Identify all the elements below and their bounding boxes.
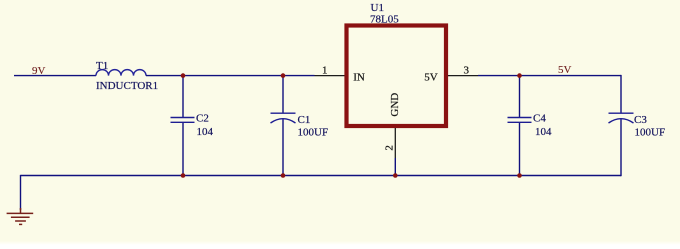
- inductor T1: [96, 70, 146, 76]
- pin 3 lead of U1: [448, 75, 478, 77]
- wire: U1 output to C3: [478, 75, 621, 77]
- wire: output drop to C3: [620, 75, 622, 113]
- junction dot: U1 GND on rail: [393, 173, 398, 178]
- svg-text:INDUCTOR1: INDUCTOR1: [96, 80, 158, 92]
- svg-text:100UF: 100UF: [298, 126, 329, 138]
- capacitor C1 (electrolytic): [271, 113, 296, 123]
- svg-text:C4: C4: [533, 113, 546, 125]
- wire: C1 top connection: [282, 76, 284, 113]
- pin 2 lead of U1 (GND): [394, 128, 396, 158]
- op-amp U1 body (voltage regulator 78L05): [347, 26, 447, 127]
- capacitor C3 (electrolytic): [609, 113, 634, 123]
- svg-text:C1: C1: [298, 114, 311, 126]
- wire: 9V input to inductor T1: [14, 75, 96, 77]
- svg-text:GND: GND: [389, 93, 401, 117]
- svg-text:104: 104: [197, 126, 214, 138]
- wire: C2 top connection: [182, 76, 184, 117]
- junction dot: C2 on rail: [181, 173, 186, 178]
- wire: U1 GND pin to ground rail: [394, 158, 396, 176]
- svg-text:3: 3: [464, 65, 470, 77]
- wire: C2 bottom to ground rail: [182, 122, 184, 176]
- svg-text:5V: 5V: [424, 72, 438, 84]
- svg-text:2: 2: [384, 145, 396, 151]
- svg-text:9V: 9V: [32, 65, 46, 77]
- pin 1 lead of U1: [315, 75, 345, 77]
- svg-text:100UF: 100UF: [635, 126, 666, 138]
- svg-text:U1: U1: [371, 2, 384, 14]
- wire: C4 top connection: [519, 76, 521, 117]
- svg-text:78L05: 78L05: [370, 13, 399, 25]
- ground rail wire: [21, 175, 622, 177]
- ground symbol: [7, 208, 34, 224]
- capacitor C2: [171, 118, 195, 123]
- svg-text:104: 104: [535, 126, 552, 138]
- junction dot: C1 on rail: [281, 173, 286, 178]
- svg-text:C2: C2: [196, 113, 209, 125]
- junction dot: inductor/C2 node (top): [181, 73, 186, 78]
- svg-text:C3: C3: [634, 114, 647, 126]
- svg-text:IN: IN: [353, 72, 365, 84]
- wire: C3 bottom to ground rail: [620, 119, 622, 176]
- junction dot: U1 output node (top): [517, 73, 522, 78]
- junction dot: C1 node (top): [281, 73, 286, 78]
- svg-text:5V: 5V: [558, 64, 572, 76]
- svg-text:1: 1: [322, 65, 328, 77]
- wire: C4 bottom to ground rail: [519, 122, 521, 176]
- wire: rail down to ground symbol: [20, 175, 22, 210]
- svg-text:T1: T1: [96, 60, 108, 72]
- capacitor C4: [508, 118, 532, 123]
- wire: inductor to U1 pin 1: [146, 75, 315, 77]
- wire: C1 bottom to ground rail: [282, 119, 284, 175]
- junction dot: C4 on rail: [517, 173, 522, 178]
